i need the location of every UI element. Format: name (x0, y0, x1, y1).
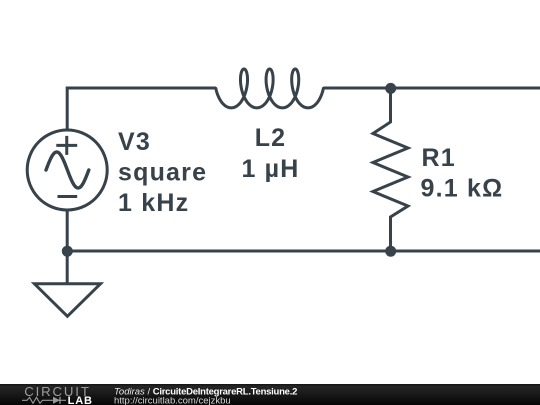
logo schematic line: resistor zigzag (22, 397, 50, 403)
svg-text:V3: V3 (118, 128, 151, 156)
wire source bottom to ground (66, 210, 69, 284)
logo schematic line: diode (50, 399, 66, 401)
inductor L2 (216, 69, 324, 108)
svg-text:1 kHz: 1 kHz (118, 189, 189, 217)
V3 sine glyph (46, 152, 89, 188)
svg-text:9.1 kΩ: 9.1 kΩ (421, 174, 504, 202)
node dot left (source/ground junction) (62, 246, 73, 257)
wire top-mid (inductor right to node) (323, 87, 540, 90)
svg-text:L2: L2 (255, 124, 287, 152)
ground (34, 284, 100, 317)
svg-text:1 µH: 1 µH (241, 155, 299, 183)
V3 plus sign (56, 136, 77, 155)
V3 minus sign (58, 195, 78, 198)
wire bottom (67, 250, 540, 253)
voltage source V3 circle (27, 130, 107, 210)
wire top-left horizontal (67, 88, 216, 130)
svg-text:http://circuitlab.com/cejzkbu: http://circuitlab.com/cejzkbu (114, 396, 231, 405)
svg-text:square: square (118, 159, 207, 187)
resistor R1 (373, 88, 408, 251)
svg-text:LAB: LAB (68, 395, 93, 405)
node dot top (L2/R1 junction) (385, 83, 396, 94)
svg-text:R1: R1 (422, 144, 456, 172)
node dot bottom (R1/wire junction) (385, 246, 396, 257)
